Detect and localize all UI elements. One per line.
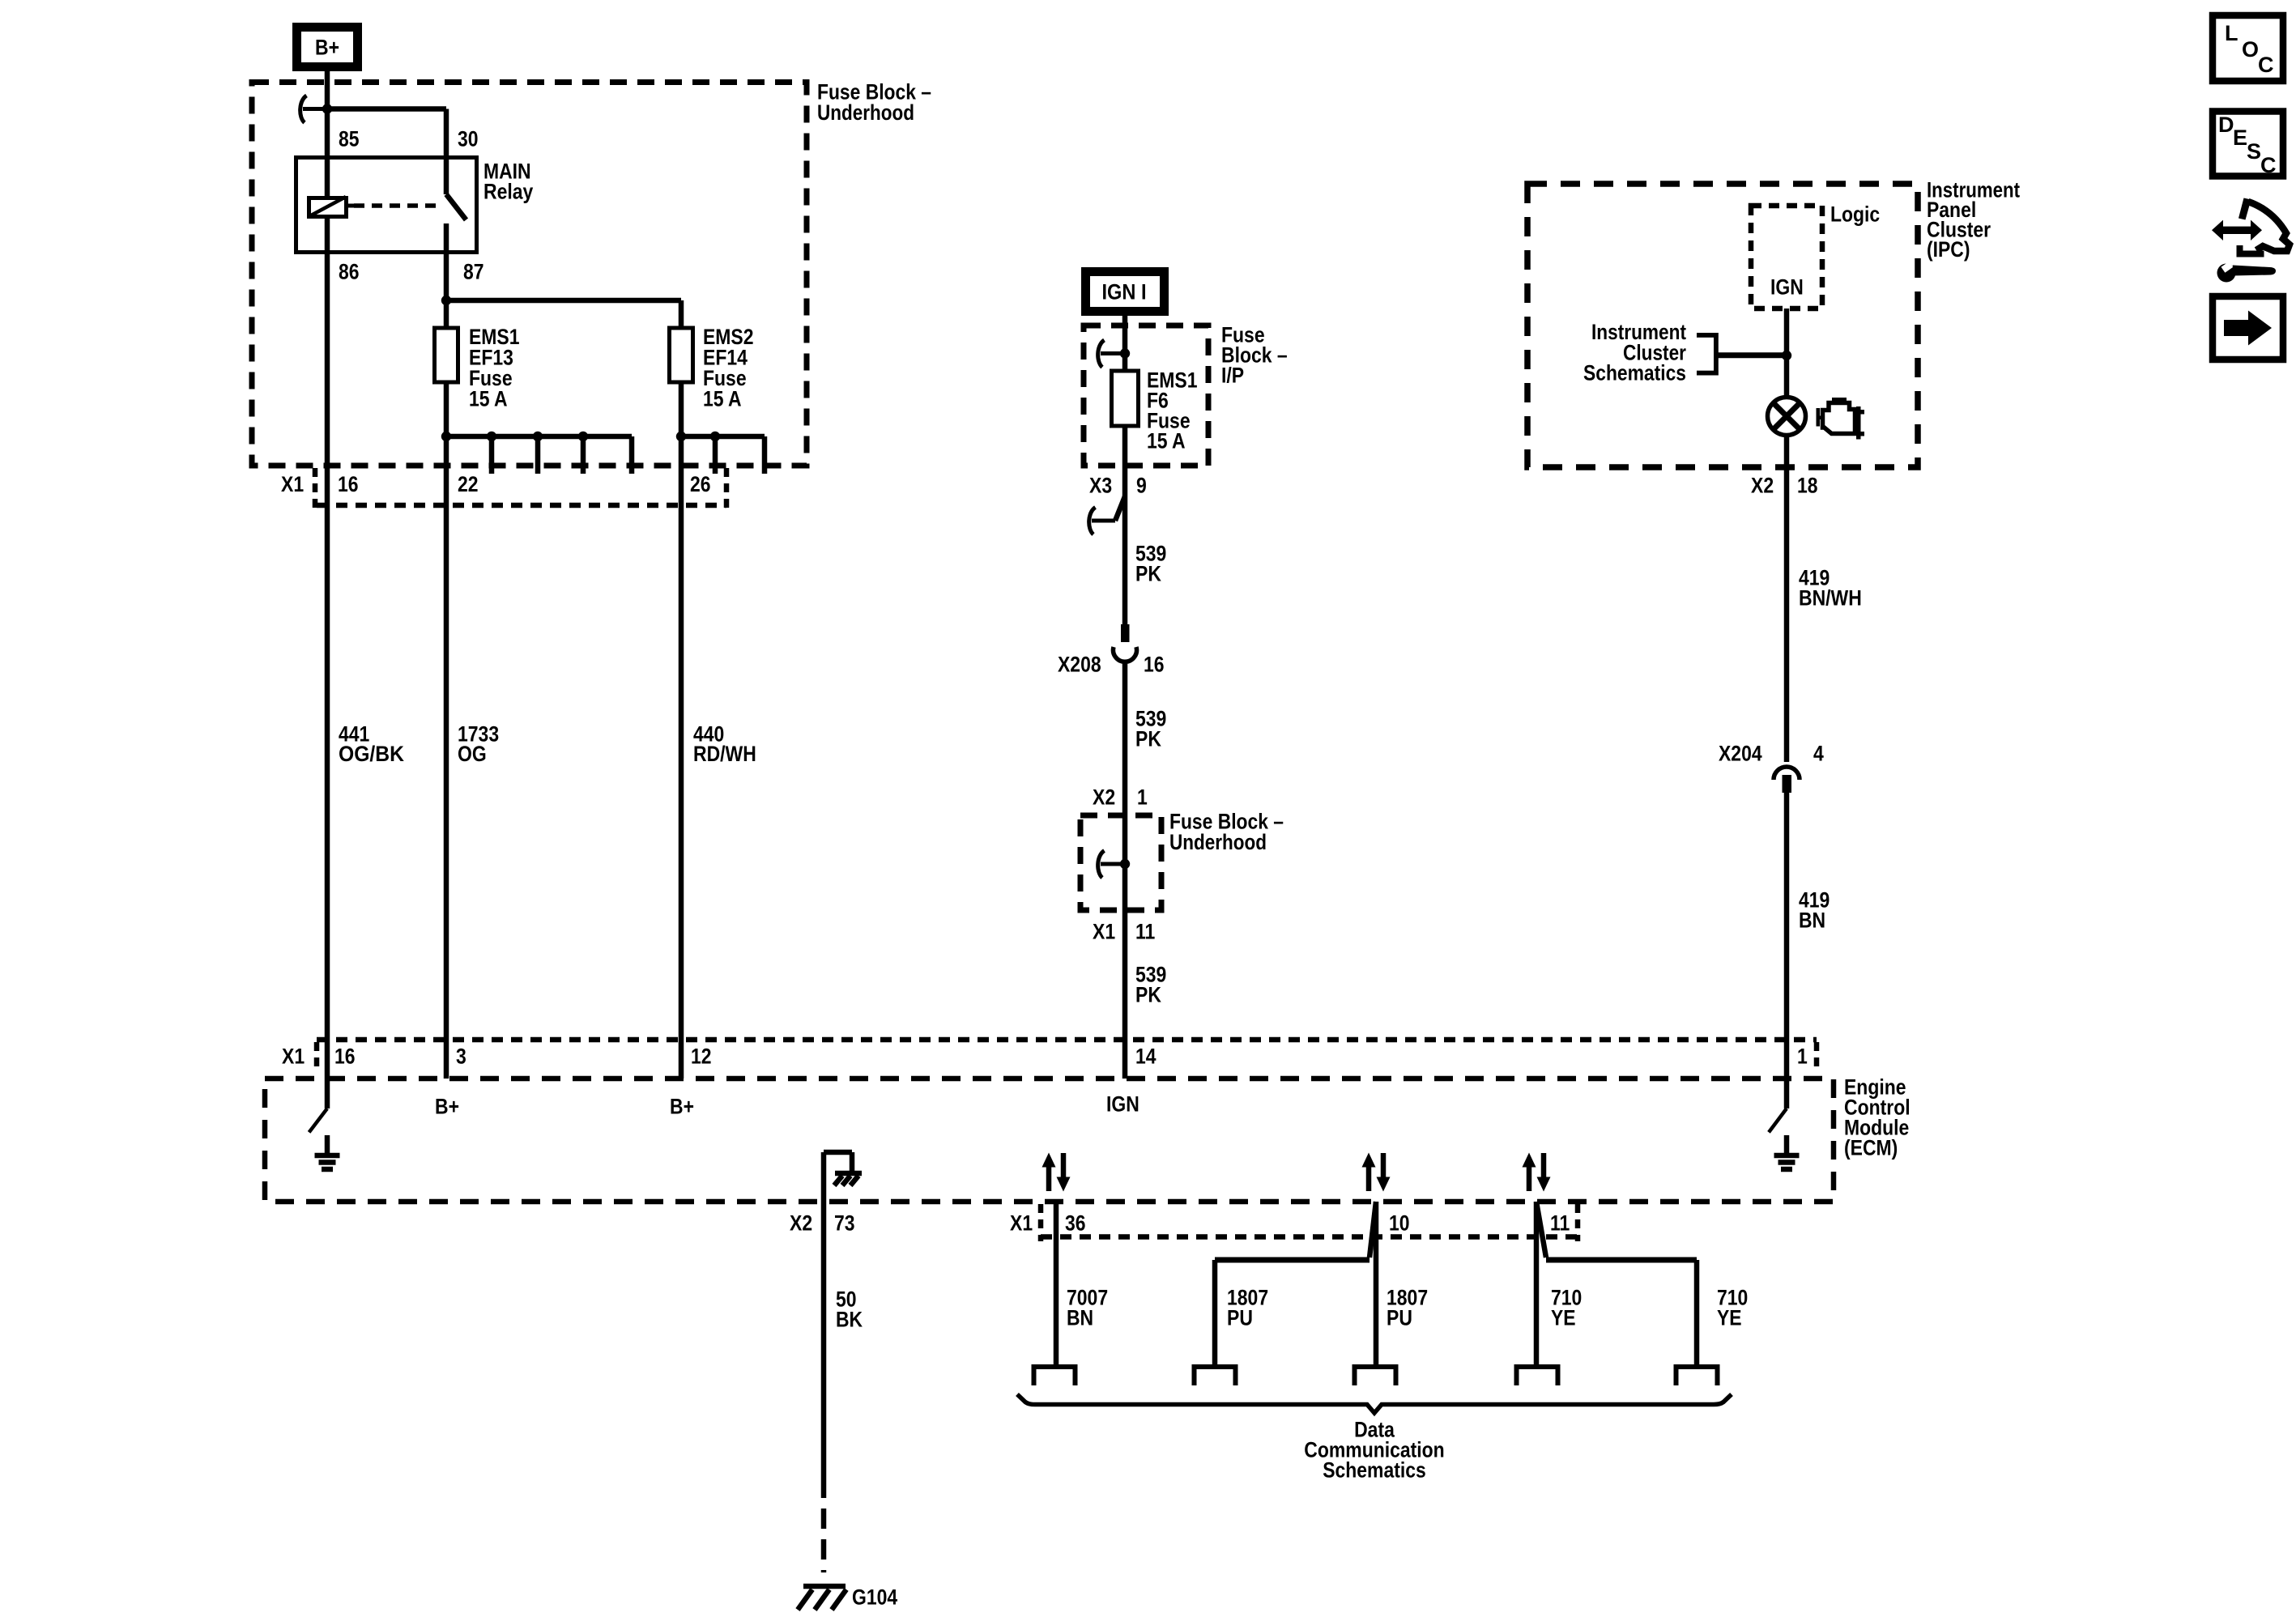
svg-text:OG/BK: OG/BK	[339, 742, 404, 766]
svg-text:Relay: Relay	[483, 180, 533, 204]
svg-text:BK: BK	[836, 1308, 863, 1332]
svg-text:Underhood: Underhood	[1169, 830, 1267, 854]
svg-text:X2: X2	[1751, 474, 1774, 498]
svg-text:I/P: I/P	[1221, 364, 1244, 388]
svg-text:10: 10	[1389, 1211, 1410, 1236]
svg-text:73: 73	[834, 1211, 855, 1236]
svg-text:BN: BN	[1067, 1306, 1093, 1330]
svg-text:16: 16	[1144, 653, 1165, 677]
svg-text:(ECM): (ECM)	[1844, 1136, 1898, 1160]
svg-text:B+: B+	[435, 1095, 459, 1119]
svg-text:Schematics: Schematics	[1583, 361, 1686, 385]
svg-text:IGN: IGN	[1770, 275, 1804, 300]
svg-text:D: D	[2218, 113, 2234, 137]
svg-text:Logic: Logic	[1830, 202, 1880, 227]
svg-text:Schematics: Schematics	[1323, 1458, 1426, 1483]
svg-text:PK: PK	[1135, 727, 1161, 751]
svg-text:IGN: IGN	[1106, 1092, 1139, 1117]
svg-text:12: 12	[691, 1045, 712, 1069]
svg-text:3: 3	[456, 1045, 466, 1069]
svg-text:X1: X1	[1010, 1211, 1033, 1236]
svg-text:X208: X208	[1058, 653, 1101, 677]
svg-text:C: C	[2258, 53, 2274, 77]
svg-text:O: O	[2242, 37, 2259, 62]
svg-text:B+: B+	[315, 36, 339, 60]
svg-text:1: 1	[1137, 785, 1148, 810]
svg-text:G104: G104	[852, 1585, 897, 1610]
svg-text:B+: B+	[670, 1095, 694, 1119]
svg-text:E: E	[2233, 126, 2247, 150]
svg-text:26: 26	[690, 472, 711, 496]
svg-text:RD/WH: RD/WH	[693, 742, 756, 766]
svg-text:30: 30	[458, 127, 479, 151]
svg-text:YE: YE	[1551, 1306, 1576, 1330]
svg-text:X1: X1	[281, 472, 304, 496]
svg-text:11: 11	[1135, 920, 1155, 944]
svg-text:22: 22	[458, 472, 479, 496]
svg-text:L: L	[2225, 21, 2238, 45]
svg-text:Underhood: Underhood	[817, 100, 914, 125]
svg-text:C: C	[2260, 153, 2277, 177]
svg-text:X2: X2	[790, 1211, 812, 1236]
svg-text:16: 16	[334, 1045, 356, 1069]
svg-text:86: 86	[339, 260, 360, 284]
svg-text:S: S	[2247, 139, 2261, 164]
svg-text:X1: X1	[1093, 920, 1115, 944]
svg-text:15 A: 15 A	[703, 387, 742, 411]
svg-text:15 A: 15 A	[469, 387, 508, 411]
svg-text:OG: OG	[458, 742, 487, 766]
svg-text:BN: BN	[1799, 908, 1825, 933]
svg-text:4: 4	[1813, 742, 1824, 766]
svg-text:IGN I: IGN I	[1102, 280, 1147, 304]
svg-text:11: 11	[1550, 1211, 1570, 1236]
svg-text:X2: X2	[1093, 785, 1115, 810]
svg-text:85: 85	[339, 127, 360, 151]
svg-text:16: 16	[338, 472, 359, 496]
svg-text:PU: PU	[1227, 1306, 1253, 1330]
svg-text:X3: X3	[1089, 474, 1112, 498]
svg-text:14: 14	[1135, 1045, 1157, 1069]
svg-text:PK: PK	[1135, 562, 1161, 586]
svg-text:15 A: 15 A	[1147, 429, 1186, 453]
svg-text:87: 87	[463, 260, 484, 284]
svg-text:9: 9	[1136, 474, 1147, 498]
svg-text:36: 36	[1065, 1211, 1086, 1236]
svg-text:PK: PK	[1135, 983, 1161, 1007]
svg-text:X1: X1	[282, 1045, 305, 1069]
svg-text:BN/WH: BN/WH	[1799, 586, 1862, 611]
svg-text:YE: YE	[1717, 1306, 1742, 1330]
svg-text:PU: PU	[1387, 1306, 1412, 1330]
svg-text:1: 1	[1797, 1045, 1808, 1069]
svg-text:(IPC): (IPC)	[1927, 237, 1970, 262]
svg-text:18: 18	[1797, 474, 1818, 498]
svg-text:X204: X204	[1719, 742, 1762, 766]
